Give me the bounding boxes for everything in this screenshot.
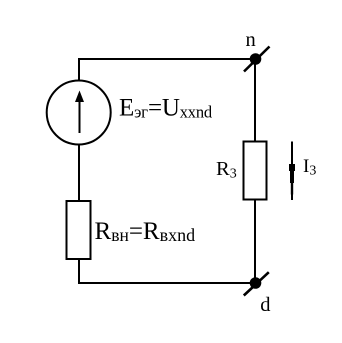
wire right lower (R3 to node d) [254, 200, 256, 283]
wire top-left corner (from source top to node n) [79, 59, 255, 81]
wire left (circle bottom to Rвн top) [78, 144, 80, 201]
wire right upper (node n to R3) [254, 59, 256, 141]
resistor R3 (box) [244, 142, 267, 200]
resistor Rвн (box) [67, 201, 91, 259]
voltage source E (circle with up arrow) [47, 81, 111, 145]
current arrow I3 [289, 142, 295, 201]
svg-text:d: d [260, 294, 270, 316]
node n (terminal dot with slash) [244, 47, 270, 72]
svg-text:n: n [246, 29, 256, 51]
node d (terminal dot with slash) [244, 272, 269, 295]
wire bottom (node d to bottom-left corner up to Rвн) [79, 259, 255, 283]
